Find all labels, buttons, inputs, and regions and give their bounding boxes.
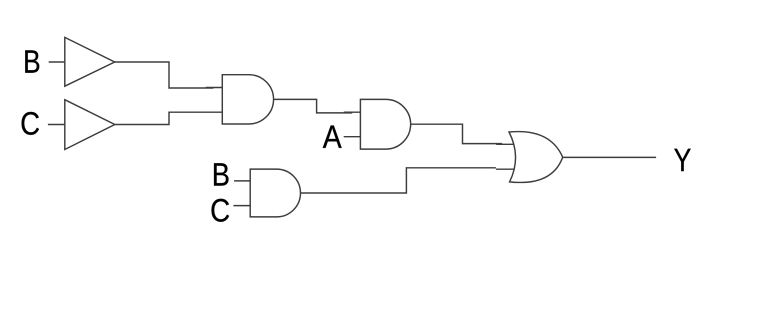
- wire: [233, 205, 250, 207]
- and-gate U3: [222, 75, 273, 124]
- wire: [301, 168, 496, 193]
- wire: [411, 124, 503, 143]
- wire: [234, 180, 250, 182]
- input label C: [22, 112, 39, 135]
- pin stub U6 input 1: [496, 143, 514, 145]
- wire: [48, 124, 66, 126]
- or-gate U6: [509, 132, 563, 183]
- wire: [344, 136, 361, 138]
- wire: [563, 156, 656, 158]
- and-gate U5: [250, 169, 300, 217]
- wire: [115, 62, 214, 88]
- wire: [274, 99, 353, 113]
- input label B: [214, 163, 228, 185]
- and-gate U4: [360, 99, 410, 149]
- wire: [115, 112, 223, 124]
- pin stub U3 input 1: [206, 87, 223, 89]
- pin stub U4 input 1: [344, 111, 361, 113]
- input label B: [25, 50, 39, 72]
- buffer U1: [65, 37, 115, 86]
- input label C: [212, 199, 230, 222]
- pin stub U6 input 2: [496, 168, 514, 170]
- buffer U2: [65, 100, 115, 150]
- wire: [49, 61, 66, 63]
- output label Y: [674, 149, 691, 171]
- input label A: [323, 126, 342, 148]
